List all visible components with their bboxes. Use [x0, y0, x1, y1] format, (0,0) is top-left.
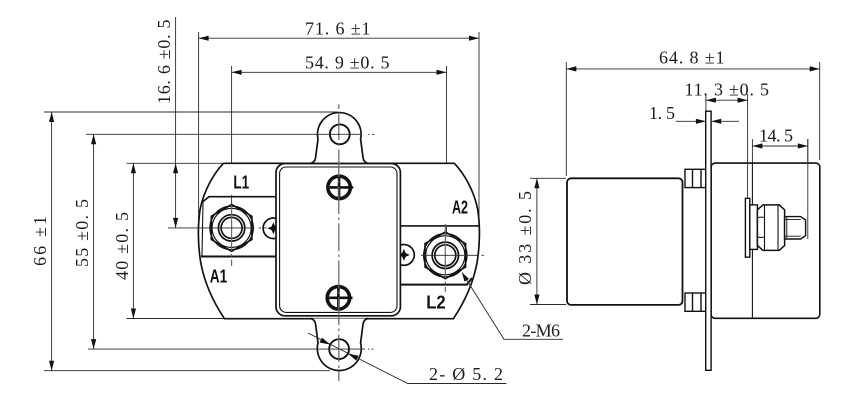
- left terminal block: [201, 197, 276, 257]
- dimension 1.5: [676, 120, 739, 122]
- svg-text:L2: L2: [426, 293, 446, 313]
- dimension 14.5: [752, 139, 807, 239]
- centerline right nut vertical: [444, 224, 446, 292]
- hole bottom 5.2: [329, 339, 349, 359]
- svg-text:L1: L1: [233, 173, 249, 193]
- mounting tab bottom: [310, 319, 368, 371]
- svg-text:54. 9 ±0. 5: 54. 9 ±0. 5: [305, 53, 390, 73]
- svg-text:Ø 33 ±0. 5: Ø 33 ±0. 5: [515, 191, 535, 285]
- right terminal block: [400, 226, 478, 285]
- mounting flange plate: [706, 111, 711, 370]
- dimension 64.8 ±1: [566, 62, 819, 176]
- svg-text:A1: A1: [210, 266, 228, 286]
- body step line: [751, 163, 753, 318]
- dimension 55 ±0.5 (rotated): [93, 134, 95, 349]
- terminal stud: [785, 217, 806, 239]
- svg-text:1. 5: 1. 5: [649, 103, 675, 123]
- dimension 71.6 ±1: [199, 32, 479, 242]
- central cover plate: [276, 164, 400, 316]
- mounting tab top: [310, 113, 368, 164]
- svg-text:66 ±1: 66 ±1: [30, 216, 50, 266]
- small screw right (behind cover edge): [394, 245, 415, 266]
- dimension 11.3 ±0.5: [706, 94, 748, 163]
- hex nut terminal L1: [210, 205, 253, 252]
- svg-text:11. 3 ±0. 5: 11. 3 ±0. 5: [685, 79, 770, 99]
- svg-text:A2: A2: [452, 198, 468, 218]
- washer plate 2: [750, 205, 758, 250]
- dimension 54.9 ±0.5: [232, 66, 447, 230]
- front view body outline: [198, 163, 479, 318]
- hole top 5.2: [330, 124, 350, 144]
- extension line 54.9 left into nut: [231, 195, 233, 205]
- dimension Ø33 ±0.5 (rotated): [530, 178, 566, 304]
- extension line 55 top through tab hole: [86, 133, 374, 135]
- extension line 55 bottom through tab hole: [88, 348, 374, 350]
- side view main body: [711, 163, 820, 318]
- dimension 66 ±1 (left, rotated): [51, 112, 53, 371]
- svg-text:2- Ø 5. 2: 2- Ø 5. 2: [429, 364, 503, 384]
- right nut centerline horizontal: [421, 254, 484, 256]
- centerline vertical main: [338, 105, 340, 382]
- leader 2-M6: [462, 273, 563, 340]
- hex nut side view: [757, 205, 784, 251]
- dimension 40 ±0.5 (rotated): [132, 163, 134, 318]
- svg-text:16. 6 ±0. 5: 16. 6 ±0. 5: [154, 20, 174, 105]
- boss bottom: [685, 293, 706, 311]
- cover screw bottom: [327, 287, 352, 309]
- boss top: [685, 169, 706, 187]
- svg-text:71. 6 ±1: 71. 6 ±1: [305, 19, 371, 39]
- leader 2-Ø5.2: [308, 333, 506, 384]
- dimension 16.6 ±0.5 (rotated): [175, 17, 177, 228]
- extension line 14.5 right (over body): [807, 139, 809, 239]
- cylinder: [567, 178, 683, 305]
- extension line 66 bottom: [44, 370, 330, 372]
- svg-text:2-M6: 2-M6: [522, 321, 560, 341]
- cover screw top: [328, 176, 353, 198]
- washer plate 1: [745, 198, 749, 257]
- svg-text:14. 5: 14. 5: [759, 126, 793, 146]
- svg-text:64. 8 ±1: 64. 8 ±1: [659, 48, 725, 68]
- extension line 11.3 right (over body): [747, 163, 749, 198]
- extension line 40 bottom: [127, 318, 229, 320]
- extension line 40 top: [127, 162, 226, 164]
- hex nut terminal L2: [424, 232, 467, 279]
- extension line 16.6 / left nut centerline horizontal: [168, 227, 267, 229]
- small screw left (behind cover edge): [263, 218, 284, 239]
- extension line 54.9 right into nut: [446, 226, 448, 232]
- centerline left nut vertical: [231, 205, 233, 266]
- extension line 66 top: [44, 111, 338, 113]
